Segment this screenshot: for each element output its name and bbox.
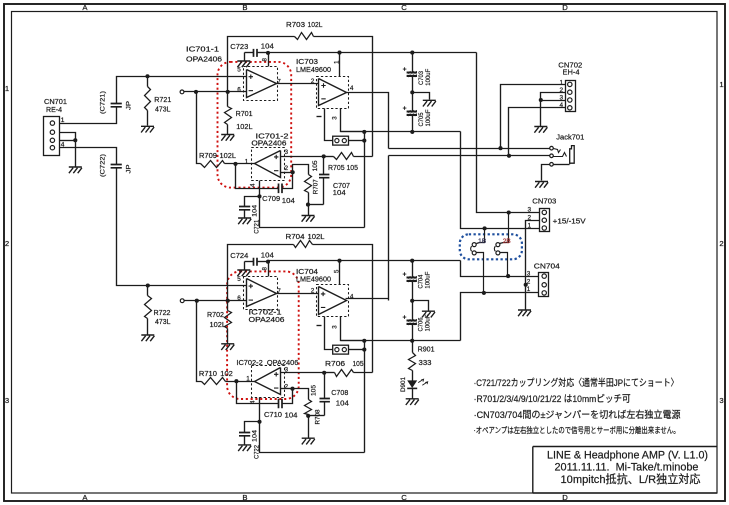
jack body	[570, 146, 575, 165]
svg-text:8: 8	[262, 267, 269, 271]
ground R702	[221, 344, 234, 350]
svg-text:R702: R702	[207, 310, 224, 319]
svg-text:1: 1	[5, 84, 9, 93]
node lower V+ rail at C724	[266, 260, 270, 264]
svg-text:C703: C703	[418, 71, 425, 85]
node jumper tap on V- drop	[362, 139, 366, 143]
node CN702 pin2/3 ground junction	[539, 98, 543, 102]
op-amp IC703 dashed box	[317, 77, 349, 109]
svg-text:2: 2	[285, 383, 289, 390]
wire V- to CN703 pin1	[461, 132, 540, 229]
wire pin8 power lower	[268, 262, 270, 277]
svg-text:IC702-2 OPA2406: IC702-2 OPA2406	[236, 358, 298, 367]
svg-text:C708: C708	[331, 388, 348, 397]
svg-text:R703: R703	[286, 20, 305, 29]
svg-text:105: 105	[353, 359, 364, 368]
jumper 2B pad bottom	[494, 246, 507, 276]
ground R708/C708	[302, 416, 315, 445]
svg-text:CN704: CN704	[534, 262, 561, 271]
blue dotted jumper box	[460, 234, 522, 259]
wire input terminal to pin6 node lower	[185, 300, 247, 302]
wire IC702-2 pin2	[281, 388, 293, 390]
svg-text:102L: 102L	[308, 232, 325, 241]
wire R710 to IC702-2	[226, 381, 255, 383]
jumper 2B pad top	[496, 213, 509, 247]
svg-text:3: 3	[5, 396, 9, 405]
wire CN701 pin2 to pin3 junction	[60, 133, 76, 141]
wire CN701 pin4 to coupling cap C722	[60, 148, 117, 165]
node V+ rail at C723	[266, 51, 270, 55]
svg-text:OPA2406: OPA2406	[251, 138, 286, 147]
ground C721	[238, 218, 251, 224]
svg-text:D: D	[562, 493, 568, 502]
connector CN703	[540, 209, 550, 232]
wire CN701 pin3	[60, 140, 76, 142]
wire CN703 pin2 ground column	[526, 221, 540, 285]
wire jack sleeve to ground	[542, 165, 550, 181]
svg-text:2: 2	[719, 239, 723, 248]
wire CN701 pin1 to coupling cap C721	[60, 107, 117, 124]
svg-text:102L: 102L	[210, 320, 227, 329]
svg-text:100uF: 100uF	[425, 69, 432, 86]
svg-text:C704: C704	[418, 274, 425, 288]
svg-text:C: C	[401, 3, 407, 12]
wire CN702 pin2 to ground	[541, 93, 566, 101]
feedback wire R703 right segment	[314, 37, 373, 157]
wire ring drop to lower channel output	[388, 156, 390, 301]
svg-text:333: 333	[419, 358, 432, 367]
feedback wire R704 left segment	[228, 245, 294, 301]
svg-text:R704: R704	[286, 232, 305, 241]
wire CN702 ground drop	[540, 101, 542, 127]
wire C721 to input node row	[117, 77, 148, 104]
svg-text:102L: 102L	[236, 122, 253, 131]
svg-text:1: 1	[560, 79, 564, 86]
node right jumper tap	[507, 210, 511, 214]
node IC704 V+ tap	[337, 259, 341, 263]
svg-text:C710: C710	[264, 410, 282, 419]
jumper 1B pad bottom	[471, 246, 484, 292]
node IC702-2 input	[234, 379, 238, 383]
node servo tap lower	[195, 299, 199, 303]
node CN704 pin2 tap	[524, 283, 528, 287]
node C722 bypass tap	[257, 420, 261, 424]
resistor R707	[293, 165, 312, 205]
wire CN702 pin1 from L output	[501, 85, 566, 149]
node IC701-2 input	[233, 162, 237, 166]
svg-text:10mpitch抵抗、L/R独立対応: 10mpitch抵抗、L/R独立対応	[561, 472, 702, 486]
node ring line CN702 tap	[507, 154, 511, 158]
svg-text:R706: R706	[325, 359, 345, 368]
svg-text:R705 105: R705 105	[328, 163, 358, 172]
node R721 tap	[145, 74, 149, 78]
resistor R722	[145, 286, 152, 335]
svg-text:104: 104	[282, 196, 295, 205]
minus sign IC703 feedback	[317, 116, 322, 118]
wire IC704 V+ pin	[339, 261, 341, 285]
wire ring line left segment	[389, 155, 509, 157]
node R708/C708 bottom junction	[306, 414, 324, 418]
ground CN701	[69, 167, 82, 173]
wire servo input drop lower	[197, 301, 202, 382]
svg-text:R710: R710	[199, 369, 217, 378]
svg-text:(C722): (C722)	[100, 154, 107, 177]
wire R709 to IC701-2	[225, 163, 255, 165]
svg-text:104: 104	[261, 251, 274, 260]
wire IC703 output	[347, 93, 389, 149]
svg-text:5: 5	[237, 276, 241, 283]
connector CN701	[44, 117, 60, 156]
svg-text:B: B	[242, 493, 247, 502]
svg-text:C709: C709	[262, 194, 280, 203]
LED D901	[407, 379, 428, 388]
wire IC703 pin3 to V- rail	[341, 109, 365, 132]
svg-text:(C721): (C721)	[100, 91, 107, 114]
svg-text:3: 3	[285, 149, 289, 156]
svg-text:1: 1	[528, 222, 532, 229]
wire input terminal to pin6 node	[184, 91, 247, 93]
node supply cap ground junction	[410, 90, 414, 94]
node C704 V+ tap	[410, 259, 414, 263]
capacitor C722 bypass	[239, 422, 260, 445]
svg-text:A: A	[82, 3, 88, 12]
capacitor C723 bypass	[245, 49, 269, 57]
svg-text:5: 5	[333, 269, 340, 273]
op-amp IC702-2	[255, 368, 281, 395]
ground C704/C706	[422, 311, 435, 317]
node left jumper tap	[483, 226, 487, 230]
input terminal left channel	[180, 90, 184, 94]
op-amp IC701-1 dashed box	[244, 67, 278, 101]
capacitor (C722) coupling	[111, 165, 122, 168]
svg-text:3: 3	[528, 207, 532, 214]
wire IC704 pin3 to V- rail lower	[341, 317, 365, 341]
V+ rail lower	[269, 260, 461, 262]
svg-text:4: 4	[249, 400, 256, 404]
svg-text:A: A	[82, 493, 88, 502]
svg-text:·オペアンプは左右独立としたので信号用とサーボ用に分離出来ま: ·オペアンプは左右独立としたので信号用とサーボ用に分離出来ません。	[474, 425, 680, 435]
svg-text:OPA2406: OPA2406	[186, 55, 222, 64]
svg-text:104: 104	[336, 399, 349, 408]
title block box	[533, 447, 717, 494]
wire IC704 output	[346, 298, 389, 300]
node R705 left	[322, 154, 326, 158]
svg-text:1B: 1B	[478, 238, 486, 245]
svg-text:R707: R707	[313, 179, 320, 194]
red dotted box IC702	[227, 271, 299, 399]
wire IC701-2 pin2	[281, 172, 293, 174]
svg-text:·CN703/704間の±ジャンパーを切れば左右独立電源: ·CN703/704間の±ジャンパーを切れば左右独立電源	[474, 409, 681, 421]
red dotted box IC701	[218, 62, 292, 188]
svg-text:473L: 473L	[155, 104, 171, 113]
svg-text:CN703: CN703	[532, 197, 556, 206]
wire IC702-1 pin7 to IC704 input	[277, 293, 319, 295]
wire CN702 pin4 from ring line	[509, 108, 566, 156]
capacitor C710 servo	[237, 382, 293, 409]
node CN701 pin2/3 junction	[73, 138, 77, 142]
node R722 tap	[146, 283, 150, 287]
svg-text:B: B	[242, 3, 247, 12]
resistor R706	[325, 370, 373, 377]
svg-text:105: 105	[312, 160, 319, 171]
node jumper tap on V- drop lower	[362, 348, 366, 352]
ground Jack701	[535, 182, 548, 188]
V- rail upper	[341, 131, 461, 133]
resistor R702	[225, 301, 232, 344]
buffer IC703	[319, 79, 347, 106]
svg-text:8: 8	[262, 58, 269, 62]
op-amp IC704 dashed box	[317, 285, 349, 317]
capacitor C703 electrolytic	[403, 53, 417, 93]
buffer IC704	[319, 287, 347, 315]
capacitor C724 bypass	[245, 258, 269, 266]
capacitor C709 servo	[236, 164, 293, 194]
wire jumper to V- vertical lower	[349, 349, 365, 351]
op-amp IC701-2 dashed box	[252, 148, 285, 181]
wire IC702-2 pin4 V-	[260, 398, 365, 453]
wire V- long drop to IC702-2	[364, 341, 366, 453]
wire pin8 power	[268, 53, 270, 67]
wire IC701-1 pin7 to IC703 input	[277, 83, 319, 85]
wire lower V- to CN704 pin1	[461, 293, 539, 341]
connector CN702	[566, 81, 576, 112]
svg-text:1: 1	[333, 60, 340, 64]
svg-text:3: 3	[331, 116, 338, 120]
capacitor C707	[319, 157, 329, 205]
node pin6 feedback junction	[226, 90, 230, 94]
svg-text:1: 1	[719, 80, 723, 89]
capacitor C704 electrolytic	[403, 261, 417, 301]
op-amp IC702-1 dashed box	[244, 277, 278, 310]
svg-text:·C721/722カップリング対応〈通常半田JPにてショート: ·C721/722カップリング対応〈通常半田JPにてショート〉	[474, 377, 679, 389]
svg-text:104: 104	[333, 188, 346, 197]
svg-text:104: 104	[261, 42, 274, 51]
resistor R708	[293, 389, 312, 416]
wire servo input drop	[197, 92, 201, 164]
feedback wire R703 left segment	[228, 37, 295, 92]
svg-text:1: 1	[245, 158, 249, 165]
svg-text:JP: JP	[126, 101, 133, 110]
svg-text:2B: 2B	[503, 238, 511, 245]
wire lower input row	[148, 285, 247, 287]
svg-text:R709: R709	[199, 151, 217, 160]
svg-text:C706: C706	[418, 317, 425, 331]
jack sleeve contact	[550, 163, 570, 167]
wire cap junction to ground	[413, 93, 430, 100]
V+ rail upper	[269, 52, 477, 54]
jumper 1B pad top	[472, 229, 484, 247]
svg-text:3: 3	[719, 396, 723, 405]
svg-text:Jack701: Jack701	[556, 133, 584, 142]
node IC703 V+ tap	[337, 51, 341, 55]
resistor R703	[295, 33, 314, 40]
node R706 left	[322, 371, 326, 375]
wire jumper to V- vertical	[349, 140, 365, 142]
resistor R701	[225, 92, 232, 135]
svg-text:2: 2	[311, 287, 315, 294]
node C706 V- tap	[410, 339, 414, 343]
svg-text:7: 7	[277, 79, 281, 86]
wire IC701-2 pin3 to R705	[281, 156, 324, 158]
ground C722	[238, 445, 251, 451]
wire junction to ground	[75, 141, 77, 167]
node V- drop lower	[362, 339, 366, 343]
svg-text:2: 2	[5, 239, 9, 248]
wire L output to jack tip	[389, 148, 550, 150]
svg-text:6: 6	[237, 86, 241, 93]
node C703 V+ tap	[410, 51, 414, 55]
svg-text:104: 104	[252, 205, 259, 217]
wire IC702-2 pin3 to R706	[281, 372, 325, 374]
svg-text:4: 4	[350, 85, 354, 92]
svg-text:D901: D901	[400, 377, 407, 392]
op-amp IC702-2 dashed box	[252, 366, 285, 398]
svg-text:C: C	[401, 493, 407, 502]
svg-text:3: 3	[285, 366, 289, 373]
capacitor (C721) coupling	[111, 104, 122, 107]
resistor R901	[409, 341, 416, 381]
svg-text:C721: C721	[254, 220, 261, 234]
resistor R721	[145, 77, 151, 126]
frame row labels left	[5, 84, 9, 405]
node pin6 feedback junction lower	[226, 299, 230, 303]
jack ring contact	[550, 153, 567, 158]
op-amp IC701-1	[247, 70, 277, 98]
wire lower V+ rail to CN704 pin3	[461, 261, 539, 277]
svg-text:C705: C705	[418, 112, 425, 126]
ground C723	[237, 61, 250, 67]
frame row labels right	[719, 80, 723, 405]
svg-text:C723: C723	[230, 42, 248, 51]
frame column labels bottom	[82, 493, 568, 502]
wire C722 down to lower channel input	[117, 168, 148, 286]
node lower supply cap ground junction	[410, 299, 414, 303]
svg-text:C722: C722	[254, 445, 261, 459]
ground D901	[406, 399, 419, 405]
frame column labels top	[82, 3, 568, 12]
svg-text:105: 105	[311, 385, 318, 396]
wire V+ to CN703 pin3	[477, 53, 540, 213]
wire input row to opamp pin5	[148, 76, 247, 78]
resistor R704	[294, 241, 313, 248]
node servo tap upper	[194, 90, 198, 94]
svg-text:D: D	[562, 3, 568, 12]
svg-text:2: 2	[527, 278, 531, 285]
node right jumper bottom tap	[506, 274, 510, 278]
svg-text:LINE & Headphone AMP (V. L1.0): LINE & Headphone AMP (V. L1.0)	[547, 450, 708, 462]
svg-text:IC701-1: IC701-1	[186, 44, 219, 53]
svg-text:4: 4	[249, 183, 256, 187]
svg-text:RE-4: RE-4	[46, 105, 62, 114]
capacitor C708	[320, 373, 330, 416]
node left jumper bottom tap	[482, 291, 486, 295]
wire C723 to ground	[244, 53, 246, 61]
jumper BR702 pads	[333, 345, 349, 354]
node pin2 junction	[291, 170, 295, 174]
wire IC703 V+ pin	[339, 53, 341, 77]
input terminal right channel	[180, 299, 184, 303]
svg-text:OPA2406: OPA2406	[249, 315, 285, 324]
capacitor C705 electrolytic	[403, 93, 417, 132]
ground C724	[237, 270, 250, 276]
node V- drop	[362, 130, 366, 134]
ground R707/C707	[302, 205, 315, 222]
svg-text:104: 104	[285, 411, 298, 420]
svg-text:LME49600: LME49600	[296, 65, 331, 74]
svg-text:R901: R901	[418, 345, 435, 354]
svg-text:102L: 102L	[220, 151, 237, 160]
svg-text:102: 102	[220, 369, 233, 378]
node C705 V- tap	[410, 130, 414, 134]
svg-text:·R701/2/3/4/9/10/21/22 は10mmピッ: ·R701/2/3/4/9/10/21/22 は10mmピッチ可	[474, 394, 631, 405]
svg-text:473L: 473L	[155, 317, 171, 326]
svg-text:3: 3	[331, 325, 338, 329]
node C721 bypass tap	[257, 194, 261, 198]
jumper BR701 pads	[333, 136, 349, 145]
svg-text:R721: R721	[154, 95, 171, 104]
wire ring line jack segment	[509, 155, 550, 157]
svg-text:104: 104	[252, 430, 259, 442]
wire lower cap junction to ground	[413, 301, 429, 311]
svg-text:100uF: 100uF	[425, 110, 432, 127]
wire C724 to ground	[244, 262, 246, 270]
capacitor C706 electrolytic	[403, 301, 417, 341]
wire CN702 pin3	[541, 100, 566, 102]
ground R701	[221, 135, 234, 141]
wire D901 to ground	[412, 389, 414, 399]
ground C703/C705	[423, 100, 436, 106]
svg-text:+15/-15V: +15/-15V	[553, 217, 587, 226]
ground supply	[518, 310, 531, 316]
wire IC703 feedback pin stub	[325, 109, 333, 141]
wire V- long drop to IC701-2	[364, 132, 366, 228]
svg-text:R722: R722	[154, 308, 171, 317]
minus sign IC704 feedback	[317, 325, 322, 327]
svg-text:2: 2	[285, 165, 289, 172]
wire ground column to ground	[525, 285, 527, 310]
wire IC704 feedback pin stub lower	[325, 317, 333, 350]
svg-text:2: 2	[311, 78, 315, 85]
connector CN704	[539, 273, 549, 297]
ground CN702	[534, 127, 547, 133]
capacitor C721 bypass	[239, 197, 260, 218]
svg-text:100uF: 100uF	[425, 315, 432, 332]
node pin2 junction lower	[290, 387, 294, 391]
node CN702 pin1 tap	[498, 146, 502, 150]
op-amp IC702-1	[247, 279, 277, 307]
svg-text:2011.11.11. Mi-Take/t.minobe: 2011.11.11. Mi-Take/t.minobe	[555, 462, 699, 474]
svg-text:6: 6	[237, 295, 241, 302]
resistor R705	[324, 153, 373, 160]
svg-text:102L: 102L	[308, 20, 323, 29]
node R707/C707 bottom junction	[306, 203, 324, 207]
jack tip contact	[550, 146, 561, 152]
svg-text:C724: C724	[230, 251, 248, 260]
svg-text:LME49600: LME49600	[296, 274, 331, 283]
V- rail lower	[341, 340, 461, 342]
resistor R709	[201, 161, 225, 168]
op-amp IC701-2	[255, 151, 281, 178]
svg-text:100uF: 100uF	[425, 272, 432, 289]
svg-text:JP: JP	[126, 165, 133, 174]
ground R721	[141, 126, 154, 132]
svg-text:EH-4: EH-4	[563, 67, 581, 76]
svg-text:R701: R701	[236, 109, 253, 118]
wire IC701-2 pin4 V-	[260, 181, 365, 228]
ground R722	[141, 335, 154, 341]
svg-text:4: 4	[350, 294, 354, 301]
svg-text:R708: R708	[315, 409, 322, 424]
